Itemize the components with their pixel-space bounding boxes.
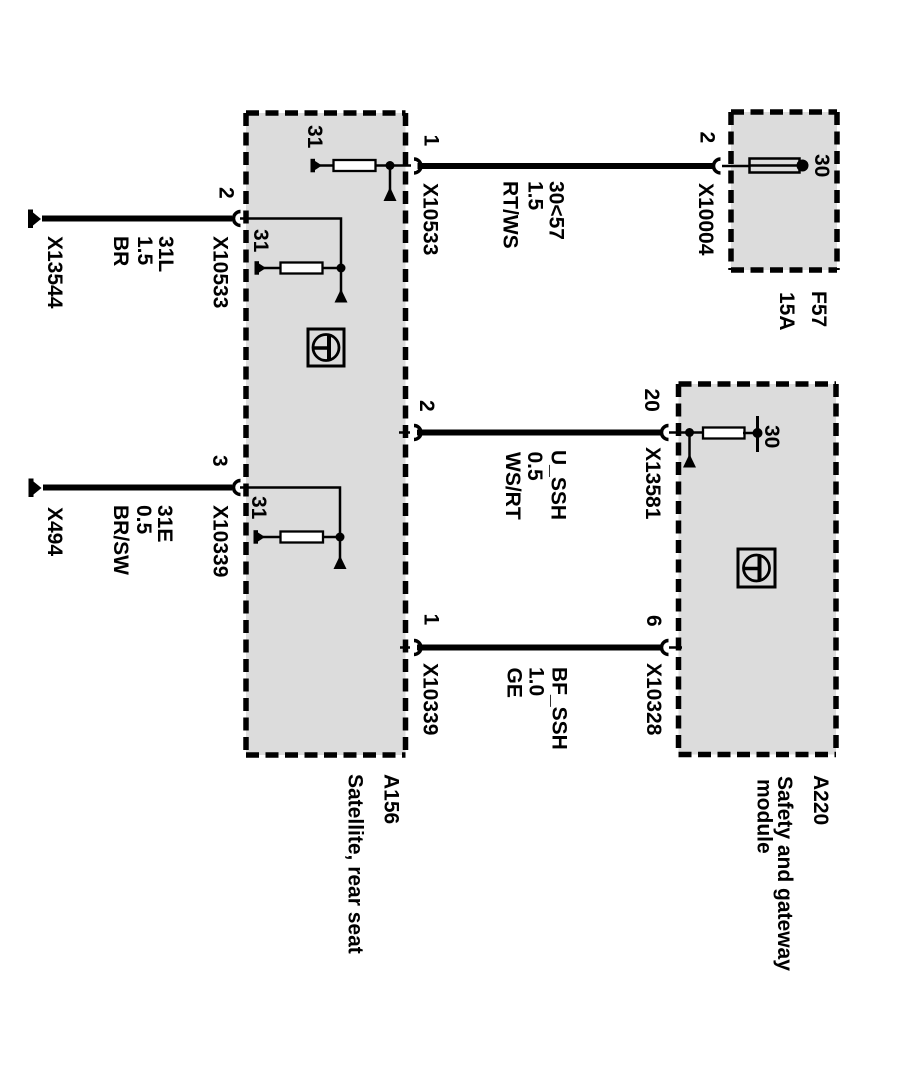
stub1 terminal head xyxy=(315,161,322,170)
stub2 junction xyxy=(337,264,346,273)
stub3 resistor body xyxy=(281,532,324,543)
stub2 ground arrow xyxy=(335,289,348,303)
terminal 30 bar xyxy=(756,416,759,452)
icon control-unit A220 square xyxy=(738,549,775,587)
svg-text:F57: F57 xyxy=(807,291,830,327)
svg-text:2: 2 xyxy=(696,132,719,144)
WA continuation arrow X13544 bar xyxy=(28,210,33,229)
svg-text:A220: A220 xyxy=(809,775,832,825)
stub1 wire right xyxy=(376,164,412,167)
stub1 junction xyxy=(386,161,395,170)
svg-text:20: 20 xyxy=(640,389,663,412)
connector pin 2 arc left xyxy=(414,426,421,440)
icon A156 left radius xyxy=(314,346,330,350)
module A156 box dashed border xyxy=(246,113,406,755)
A220 wire to terminal 30 xyxy=(743,432,758,435)
svg-text:0.5: 0.5 xyxy=(132,505,155,535)
svg-text:1: 1 xyxy=(420,135,443,147)
module A220 box fill xyxy=(679,384,837,755)
svg-text:X494: X494 xyxy=(43,507,66,556)
svg-text:31L: 31L xyxy=(154,236,177,272)
A220 junction dot xyxy=(685,428,694,437)
svg-text:U_SSH: U_SSH xyxy=(547,450,570,520)
connector pin 2 X10533 arc right xyxy=(234,212,241,226)
wire W2 thin inside A156 xyxy=(399,431,410,434)
WB continuation arrow X494 head xyxy=(34,482,42,495)
connector pin 3 X10339 arc right xyxy=(234,481,241,495)
A220 resistor body xyxy=(703,428,745,439)
svg-text:BF_SSH: BF_SSH xyxy=(548,667,571,750)
svg-text:31: 31 xyxy=(303,125,326,149)
svg-text:X10533: X10533 xyxy=(419,183,442,255)
stub3 ground arrow xyxy=(334,556,347,570)
wire W3 thin inside A156 xyxy=(400,646,410,649)
stub3 wire arrow-resistor xyxy=(263,536,281,539)
svg-text:BR/SW: BR/SW xyxy=(109,505,132,575)
svg-text:1: 1 xyxy=(420,614,443,626)
WA continuation arrow X13544 head xyxy=(33,213,41,226)
svg-text:1.0: 1.0 xyxy=(525,667,548,696)
stub2 wire resistor-junction xyxy=(323,267,342,270)
svg-text:X10533: X10533 xyxy=(209,236,232,308)
stub1 ground drop wire xyxy=(389,166,392,192)
wire thin into A220 at pin6 xyxy=(669,646,682,649)
WB continuation arrow X494 bar xyxy=(29,479,34,498)
icon A220 left radius xyxy=(744,567,760,571)
wire thin into F57 xyxy=(722,165,750,168)
stub2 terminal head xyxy=(259,264,266,273)
svg-text:30: 30 xyxy=(760,425,783,448)
icon control-unit A156 square xyxy=(308,329,344,366)
svg-text:RT/WS: RT/WS xyxy=(499,181,522,249)
wire WB thick 31E xyxy=(43,485,232,491)
stub2 terminal bar xyxy=(255,261,260,275)
connector pin 1 X10533 arc xyxy=(414,159,421,173)
wire thin into A220 xyxy=(669,431,703,434)
svg-text:1.5: 1.5 xyxy=(524,181,547,211)
svg-text:30: 30 xyxy=(810,154,833,177)
connector pin 6 X10328 arc xyxy=(662,641,669,655)
A220 ground arrow xyxy=(683,454,696,468)
connector pin 1 X10339 arc xyxy=(414,641,421,655)
connector pin 20 X13581 arc xyxy=(662,426,669,440)
svg-text:31: 31 xyxy=(249,229,272,253)
module A156 box fill xyxy=(246,113,406,755)
stub2 resistor body xyxy=(281,263,323,274)
svg-text:3: 3 xyxy=(208,455,231,467)
terminal 30 dot xyxy=(753,428,763,438)
stub2 wire arrow-resistor xyxy=(263,267,281,270)
fuse F57 box dashed border xyxy=(731,112,837,270)
fuse F57 box fill xyxy=(731,112,837,270)
icon A156 vertical bar xyxy=(327,335,331,361)
svg-text:X10339: X10339 xyxy=(209,505,232,577)
icon A220 circle xyxy=(744,555,770,581)
svg-text:6: 6 xyxy=(642,615,665,627)
stub3 terminal bar xyxy=(254,530,259,544)
svg-text:X13544: X13544 xyxy=(43,236,66,309)
fuse F57 symbol body xyxy=(750,159,800,173)
internal ground stub 31 at pin1: terminal bar xyxy=(311,159,316,173)
svg-text:X10339: X10339 xyxy=(419,663,442,735)
stub2 ground drop xyxy=(340,268,343,293)
svg-text:31: 31 xyxy=(247,496,270,520)
svg-text:31E: 31E xyxy=(153,505,176,542)
wire WA thick 31L xyxy=(42,216,232,222)
icon A156 circle xyxy=(313,335,339,361)
stub3 junction xyxy=(336,533,345,542)
terminal 30 dot xyxy=(797,160,809,172)
icon A220 vertical bar xyxy=(758,556,762,582)
svg-text:X13581: X13581 xyxy=(641,447,664,520)
fuse F57 through line xyxy=(750,164,800,167)
WB thin wire inside A156 xyxy=(240,488,340,538)
stub1 wire left xyxy=(320,164,334,167)
svg-text:module: module xyxy=(753,779,776,854)
svg-text:X10328: X10328 xyxy=(642,663,665,736)
svg-text:BR: BR xyxy=(109,236,132,266)
module A220 box dashed border xyxy=(679,384,837,755)
svg-text:30<57: 30<57 xyxy=(545,181,568,240)
stub3 ground drop xyxy=(339,537,342,560)
svg-text:GE: GE xyxy=(503,668,526,698)
svg-text:2: 2 xyxy=(215,187,238,199)
wire W1 thick 30<57 xyxy=(418,163,715,169)
wire W3 thick BF_SSH xyxy=(417,645,663,651)
A220 ground drop wire xyxy=(688,433,691,459)
stub3 wire resistor-junction xyxy=(323,536,340,539)
svg-text:15A: 15A xyxy=(775,292,798,331)
svg-text:Satellite, rear seat: Satellite, rear seat xyxy=(344,774,367,954)
WA thin wire inside A156 xyxy=(240,219,341,269)
svg-text:1.5: 1.5 xyxy=(133,236,156,266)
stub3 terminal head xyxy=(258,533,265,542)
svg-text:0.5: 0.5 xyxy=(523,452,546,482)
wire W2 thick U_SSH xyxy=(417,430,663,436)
svg-text:A156: A156 xyxy=(380,774,403,824)
svg-text:2: 2 xyxy=(415,400,438,412)
stub1 resistor body xyxy=(334,160,376,171)
connector pin 2 X10004 arc xyxy=(714,159,721,173)
svg-text:X10004: X10004 xyxy=(694,183,717,256)
stub1 ground arrow xyxy=(384,187,397,201)
svg-text:WS/RT: WS/RT xyxy=(501,452,524,520)
